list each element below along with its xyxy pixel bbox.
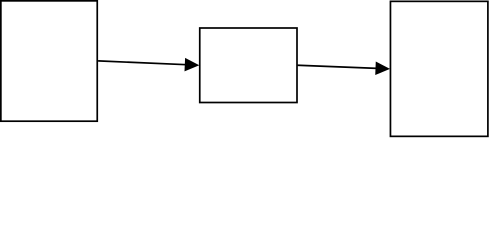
box 2 (middle process box) [200, 28, 297, 103]
arrow 2 head [375, 62, 390, 75]
box 3 (right process box) [390, 1, 487, 136]
arrow 1 shaft (box 1 to box 2) [98, 61, 186, 65]
box 1 (left process box) [1, 1, 97, 121]
arrow 1 head [185, 58, 200, 71]
arrow 2 shaft (box 2 to box 3) [298, 65, 378, 68]
